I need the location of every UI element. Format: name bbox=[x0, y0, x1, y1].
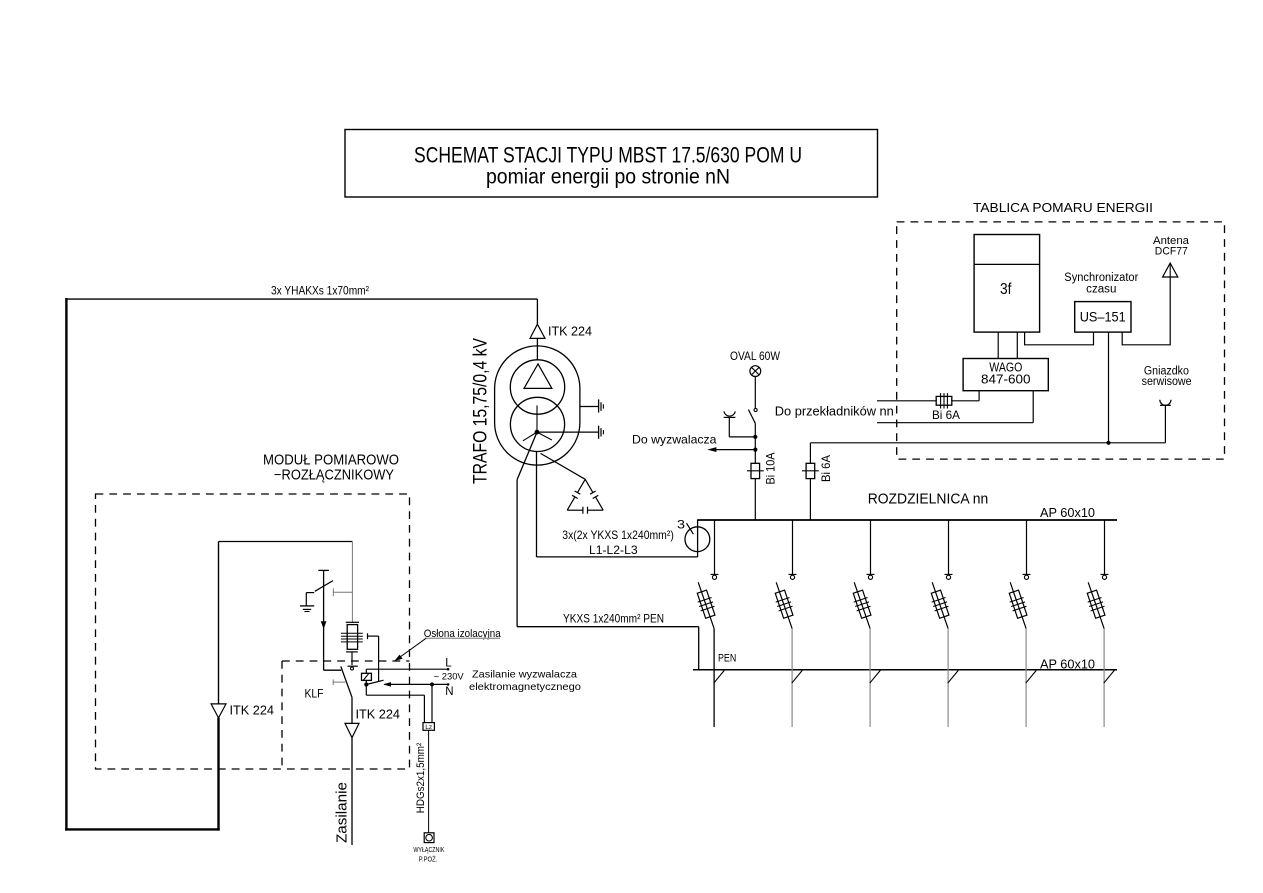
ground symbol module bbox=[300, 605, 314, 607]
wire Bi6A branch top bbox=[809, 443, 811, 463]
star ray down-left bbox=[523, 432, 537, 441]
wire thick right vertical up to arrester bbox=[217, 718, 219, 831]
wire N junction down to Lz bbox=[431, 684, 433, 722]
svg-text:Bi 6A: Bi 6A bbox=[819, 455, 833, 482]
svg-text:PEN: PEN bbox=[718, 652, 736, 664]
feeder 6 drop from busbar bbox=[1104, 520, 1106, 574]
feeder 6 cable down bbox=[1103, 629, 1105, 727]
svg-text:3x YHAKXs 1x70mm²: 3x YHAKXs 1x70mm² bbox=[271, 284, 369, 298]
feeder 1 fuse-switch diagonal bbox=[698, 582, 714, 628]
wire N with arrow and terminal bbox=[384, 683, 391, 686]
feeder 1 drop from busbar bbox=[714, 520, 716, 574]
earthing switch blade bbox=[315, 581, 333, 592]
feeder 2 fuse body bbox=[773, 589, 795, 619]
svg-text:ITK 224: ITK 224 bbox=[548, 325, 592, 339]
wire tank to earth 1 bbox=[580, 406, 599, 408]
wire through circle to busbar bbox=[697, 520, 699, 557]
wire vertical above left arrester bbox=[218, 542, 220, 704]
svg-text:TRAFO 15,75/0,4 kV: TRAFO 15,75/0,4 kV bbox=[471, 338, 492, 484]
meter 3f box bbox=[974, 235, 1040, 333]
svg-text:3: 3 bbox=[677, 520, 685, 532]
svg-text:Do wyzwalacza: Do wyzwalacza bbox=[632, 433, 717, 447]
svg-text:~ 230V: ~ 230V bbox=[434, 672, 464, 682]
fire switch WYLACZNIK P.POZ. box bbox=[424, 833, 434, 843]
fuse Bi 10A bbox=[751, 463, 760, 478]
wire LV secondary horizontal to cable circle bbox=[537, 556, 698, 558]
svg-text:DCF77: DCF77 bbox=[1155, 246, 1188, 258]
wire CT line 2 to WAGO bbox=[877, 422, 1033, 424]
junction node socket branch bbox=[753, 435, 757, 439]
wire switch to busbar via fuse bbox=[754, 423, 756, 463]
feeder 3 drop from busbar bbox=[870, 520, 872, 574]
tertiary delta with capacitor gaps bbox=[578, 479, 586, 492]
fuse main module top cap bbox=[346, 621, 359, 623]
wire meter to WAGO left bbox=[997, 332, 999, 358]
svg-text:elektromagnetycznego: elektromagnetycznego bbox=[469, 681, 581, 693]
feeder 5 PEN slash bbox=[1026, 670, 1037, 683]
wire Bi6A to busbar bbox=[809, 478, 811, 519]
wire L with terminal bbox=[366, 668, 448, 670]
feeder 2 terminal bbox=[789, 573, 797, 575]
junction node US-151 line bbox=[1106, 441, 1110, 445]
switch blade bbox=[748, 410, 755, 424]
wire socket down to line bbox=[1164, 405, 1166, 443]
trip contact blade bbox=[366, 680, 383, 684]
module dashed enclosure bbox=[96, 494, 410, 769]
svg-text:−ROZŁĄCZNIKOWY: −ROZŁĄCZNIKOWY bbox=[274, 468, 394, 484]
arrester ITK 224 left (module input) bbox=[211, 704, 226, 718]
wire meter to WAGO right bbox=[1016, 332, 1018, 358]
fuse main module body bbox=[347, 625, 357, 650]
feeder 5 drop from busbar bbox=[1026, 520, 1028, 574]
cable 3-phase slash bbox=[687, 523, 694, 534]
svg-text:OVAL 60W: OVAL 60W bbox=[730, 349, 781, 363]
svg-text:pomiar energii po stronie nN: pomiar energii po stronie nN bbox=[486, 166, 730, 189]
wire node down to Lz bbox=[365, 685, 367, 696]
wire module main vertical gray bbox=[351, 542, 353, 623]
svg-text:TABLICA POMARU ENERGII: TABLICA POMARU ENERGII bbox=[973, 200, 1153, 215]
lamp socket symbol bbox=[724, 416, 736, 418]
trip coil box bbox=[362, 673, 372, 680]
svg-text:3x(2x YKXS 1x240mm²): 3x(2x YKXS 1x240mm²) bbox=[562, 528, 674, 542]
feeder 3 PEN slash bbox=[870, 670, 881, 683]
feeder 4 cable down bbox=[947, 629, 949, 727]
earthing switch trip arrow bbox=[321, 622, 326, 628]
time sync US-151 box bbox=[1075, 302, 1131, 333]
wire star point to earth 2 bbox=[537, 431, 598, 433]
feeder 6 PEN slash bbox=[1104, 670, 1115, 683]
svg-text:Zasilanie wyzwalacza: Zasilanie wyzwalacza bbox=[472, 669, 577, 681]
lamp OVAL 60W symbol bbox=[750, 366, 761, 377]
feeder 2 drop from busbar bbox=[792, 520, 794, 574]
antenna DCF77 symbol bbox=[1163, 263, 1178, 277]
svg-text:Zasilanie: Zasilanie bbox=[334, 782, 351, 843]
svg-text:WYŁĄCZNIK: WYŁĄCZNIK bbox=[413, 845, 444, 854]
busbar AP 60x10 main bbox=[698, 519, 1117, 521]
svg-text:KLF: KLF bbox=[305, 689, 324, 701]
wire CT line 1 to WAGO bbox=[952, 400, 979, 402]
arrester ITK 224 at transformer HV bbox=[530, 324, 545, 338]
feeder 6 terminal bbox=[1101, 573, 1109, 575]
feeder 3 terminal bbox=[867, 573, 875, 575]
wire LV secondary vertical bbox=[536, 451, 538, 557]
earthing switch vertical bbox=[323, 570, 325, 670]
transformer T1 tank outline bbox=[495, 346, 580, 465]
fuse Bi 6A horizontal in tablica bbox=[936, 396, 952, 405]
star ray up bbox=[536, 405, 538, 432]
feeder 4 fuse-switch diagonal bbox=[932, 582, 948, 628]
svg-text:Bi 10A: Bi 10A bbox=[763, 453, 777, 485]
wire lamp to switch bbox=[754, 377, 756, 409]
wire from top into HV arrester bbox=[536, 299, 538, 324]
inner dashed enclosure left bbox=[281, 661, 283, 769]
wire to lamp socket bbox=[729, 436, 755, 438]
wire module top horizontal bbox=[219, 541, 353, 543]
svg-text:ROZDZIELNICA nn: ROZDZIELNICA nn bbox=[868, 490, 989, 507]
fuse bottom contact bbox=[348, 665, 358, 667]
service socket symbol bbox=[1160, 400, 1171, 406]
aux contact KLF gray bbox=[332, 679, 334, 685]
wire PEN horizontal bbox=[517, 626, 699, 628]
svg-text:L: L bbox=[445, 658, 452, 670]
feeder 1 cable down bbox=[713, 629, 715, 727]
leader arrow Oslona bbox=[397, 638, 427, 659]
wire arrester to transformer bbox=[536, 338, 538, 360]
wire thick left vertical bbox=[65, 298, 67, 831]
arrester ITK 224 module bbox=[345, 723, 359, 737]
feeder 4 PEN slash bbox=[948, 670, 959, 683]
svg-text:YKXS 1x240mm² PEN: YKXS 1x240mm² PEN bbox=[563, 612, 664, 626]
wire L corner into coil bbox=[365, 669, 367, 673]
feeder 3 fuse body bbox=[851, 589, 873, 619]
svg-text:US–151: US–151 bbox=[1080, 309, 1126, 325]
feeder 3 cable down bbox=[869, 629, 871, 727]
fuse main module ticks bbox=[341, 632, 363, 634]
earth symbol 2 bars bbox=[598, 426, 600, 439]
title box bbox=[345, 130, 878, 198]
feeder 6 fuse-switch diagonal bbox=[1088, 582, 1104, 628]
cable marker circle bbox=[685, 527, 710, 552]
earth symbol 1 bars bbox=[598, 399, 600, 412]
feeder 1 terminal bbox=[711, 573, 719, 575]
svg-text:serwisowe: serwisowe bbox=[1142, 376, 1192, 388]
svg-text:ITK 224: ITK 224 bbox=[356, 708, 401, 722]
wire thick bottom horizontal bbox=[65, 828, 220, 830]
wire PEN diagonal from star point bbox=[517, 432, 537, 480]
svg-text:HDGs2x1,5mm²: HDGs2x1,5mm² bbox=[415, 742, 427, 813]
star ray down-right bbox=[537, 432, 552, 440]
wire PEN vertical bbox=[516, 480, 518, 627]
wire US-151 down to socket line bbox=[1108, 332, 1110, 443]
feeder 6 fuse body bbox=[1085, 589, 1107, 619]
svg-text:SCHEMAT STACJI TYPU MBST 17.5/: SCHEMAT STACJI TYPU MBST 17.5/630 POM U bbox=[414, 143, 802, 168]
svg-text:Synchronizator: Synchronizator bbox=[1064, 272, 1138, 284]
feeder 5 fuse-switch diagonal bbox=[1010, 582, 1026, 628]
tablica dashed enclosure bbox=[897, 222, 1225, 459]
inner dashed enclosure top bbox=[282, 660, 410, 662]
fuse main module bottom cap bbox=[346, 651, 358, 653]
svg-text:L1-L2-L3: L1-L2-L3 bbox=[589, 543, 638, 557]
tertiary diagonal from LV winding bbox=[541, 453, 586, 479]
transformer T1 HV winding circle bbox=[510, 360, 564, 414]
wire CT line 1 bbox=[877, 400, 936, 402]
junction node coil bottom bbox=[364, 682, 368, 686]
transformer delta symbol in HV winding bbox=[524, 364, 552, 389]
feeder 4 drop from busbar bbox=[948, 520, 950, 574]
feeder 2 cable down bbox=[791, 629, 793, 727]
wire meter to US-151 bbox=[1025, 332, 1094, 345]
feeder 2 fuse-switch diagonal bbox=[776, 582, 792, 628]
svg-text:Lz: Lz bbox=[425, 724, 432, 731]
wire tap down bbox=[378, 636, 380, 681]
wire coil to node bbox=[365, 680, 367, 684]
feeder 5 cable down bbox=[1025, 629, 1027, 727]
terminal Lz box bbox=[423, 723, 434, 731]
junction node trip branch bbox=[753, 448, 757, 452]
svg-text:Bi 6A: Bi 6A bbox=[932, 408, 960, 422]
feeder 4 fuse body bbox=[929, 589, 951, 619]
feeder 1 PEN slash bbox=[714, 670, 725, 683]
svg-text:847-600: 847-600 bbox=[981, 372, 1031, 387]
fixed contact gray near main line bbox=[332, 588, 334, 596]
feeder 5 fuse body bbox=[1007, 589, 1029, 619]
svg-text:czasu: czasu bbox=[1086, 284, 1116, 296]
transformer T1 LV winding circle bbox=[510, 397, 564, 451]
cable HDGs to fire switch bbox=[428, 730, 430, 833]
wire Do wyzwalacza with arrow bbox=[711, 449, 756, 451]
feeder 5 terminal bbox=[1023, 573, 1031, 575]
feeder 3 fuse-switch diagonal bbox=[854, 582, 870, 628]
busbar PEN bbox=[693, 669, 1117, 671]
disconnector blade module bbox=[341, 666, 352, 697]
feeder 2 PEN slash bbox=[792, 670, 803, 683]
feeder 4 terminal bbox=[945, 573, 953, 575]
line-side tap T-bar bbox=[367, 633, 369, 639]
feeder 1 fuse body bbox=[695, 589, 717, 619]
wire US-151 to antenna bbox=[1122, 277, 1170, 345]
svg-text:P.POŻ.: P.POŻ. bbox=[419, 855, 438, 864]
wire PEN down to PEN busbar bbox=[698, 627, 700, 670]
wire long horizontal to tablica socket bbox=[810, 442, 1165, 444]
earthing switch bottom horizontal bbox=[324, 669, 342, 671]
switch fixed contact circle bbox=[754, 408, 757, 411]
transformer star point node bbox=[535, 430, 540, 435]
svg-text:Do przekładników nn: Do przekładników nn bbox=[775, 405, 894, 419]
earth contact corner bbox=[306, 592, 314, 594]
svg-text:3f: 3f bbox=[1000, 281, 1012, 298]
svg-text:AP 60x10: AP 60x10 bbox=[1040, 506, 1095, 520]
wire 3x YHAKXs horizontal from left loop to transformer bbox=[65, 298, 537, 300]
svg-text:MODUŁ POMIAROWO: MODUŁ POMIAROWO bbox=[263, 453, 399, 469]
svg-text:ITK 224: ITK 224 bbox=[230, 704, 275, 718]
earthing switch T-bar bbox=[318, 569, 329, 571]
wire blade to arrester bbox=[351, 697, 353, 723]
terminal block WAGO 847-600 box bbox=[963, 359, 1048, 391]
svg-text:N: N bbox=[445, 686, 453, 698]
fuse Bi 6A vertical bbox=[806, 463, 815, 478]
wire Zasilanie down bbox=[351, 738, 353, 845]
